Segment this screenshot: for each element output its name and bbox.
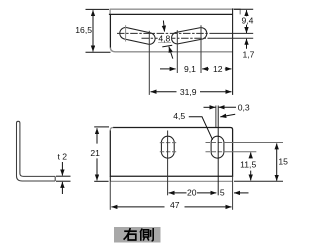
dim 5 (outside arrow from right): [234, 192, 249, 194]
svg-text:t 2: t 2: [58, 152, 68, 162]
svg-text:12: 12: [213, 64, 223, 74]
centerline Y1 through slot1-left and slot2-right: [117, 32, 212, 34]
left slot (front): [161, 136, 174, 158]
plate bottom bend line (gray) with rounded left corner: [110, 48, 232, 52]
bottom flange edge-on gray line: [110, 180, 232, 182]
dim 31.9: [151, 91, 177, 93]
svg-text:31,9: 31,9: [180, 87, 197, 97]
slot cross lines: [160, 143, 226, 152]
4.8 slot width callout: [163, 21, 164, 32]
svg-text:21: 21: [90, 148, 100, 158]
top strip (vertical face seen from above), gray top edge: [110, 9, 240, 15]
plate right edge + extension: [232, 8, 234, 95]
extension of right-slot cross lines to the right dims: [226, 142, 283, 144]
slot 1 (tilted obround, left): [119, 26, 157, 45]
0.3 callout: [204, 106, 216, 108]
dim 21 (left of front view): [94, 126, 109, 128]
4.5 callout: [189, 117, 213, 140]
svg-text:9,4: 9,4: [242, 15, 254, 25]
svg-text:5: 5: [220, 187, 225, 197]
dim 9.1 (arrows outside): [160, 68, 176, 70]
svg-text:0,3: 0,3: [238, 102, 250, 112]
svg-text:4,5: 4,5: [173, 111, 185, 121]
svg-text:1,7: 1,7: [243, 49, 255, 59]
kanji 右: [124, 228, 137, 240]
plate outline (top view): [109, 14, 233, 47]
svg-text:20: 20: [187, 187, 197, 197]
0.3 second line: [215, 106, 217, 128]
dim 20: [169, 192, 187, 194]
svg-text:9,1: 9,1: [184, 64, 196, 74]
right slot (front): [211, 136, 224, 158]
slot vertical centerlines: [167, 131, 169, 196]
dim 1.7: [246, 39, 248, 49]
slot 2 (tilted obround, right): [170, 27, 207, 45]
centerline Y2 through slot1-right and slot2-left: [142, 37, 213, 39]
svg-text:47: 47: [170, 200, 180, 210]
t 2 thickness dim: [56, 175, 71, 177]
dim 47: [111, 206, 164, 208]
plate outline: [110, 128, 232, 177]
svg-text:11,5: 11,5: [240, 160, 256, 170]
vertical centerline ticks at hole centers: [125, 25, 127, 41]
47 extension lines: [109, 181, 111, 209]
dim 9.4 (right of top view): [234, 8, 253, 10]
dim 16.5 (left of top view): [86, 8, 110, 10]
bottom-right extension line: [234, 180, 283, 182]
kanji 側: [140, 228, 153, 241]
dim 15 (far right): [276, 143, 278, 180]
dim 12 (arrows inside pointing out): [225, 68, 232, 70]
svg-text:16,5: 16,5: [75, 25, 92, 35]
svg-text:15: 15: [278, 156, 288, 166]
svg-text:4,8: 4,8: [158, 34, 170, 44]
dim 11.5: [250, 152, 252, 158]
